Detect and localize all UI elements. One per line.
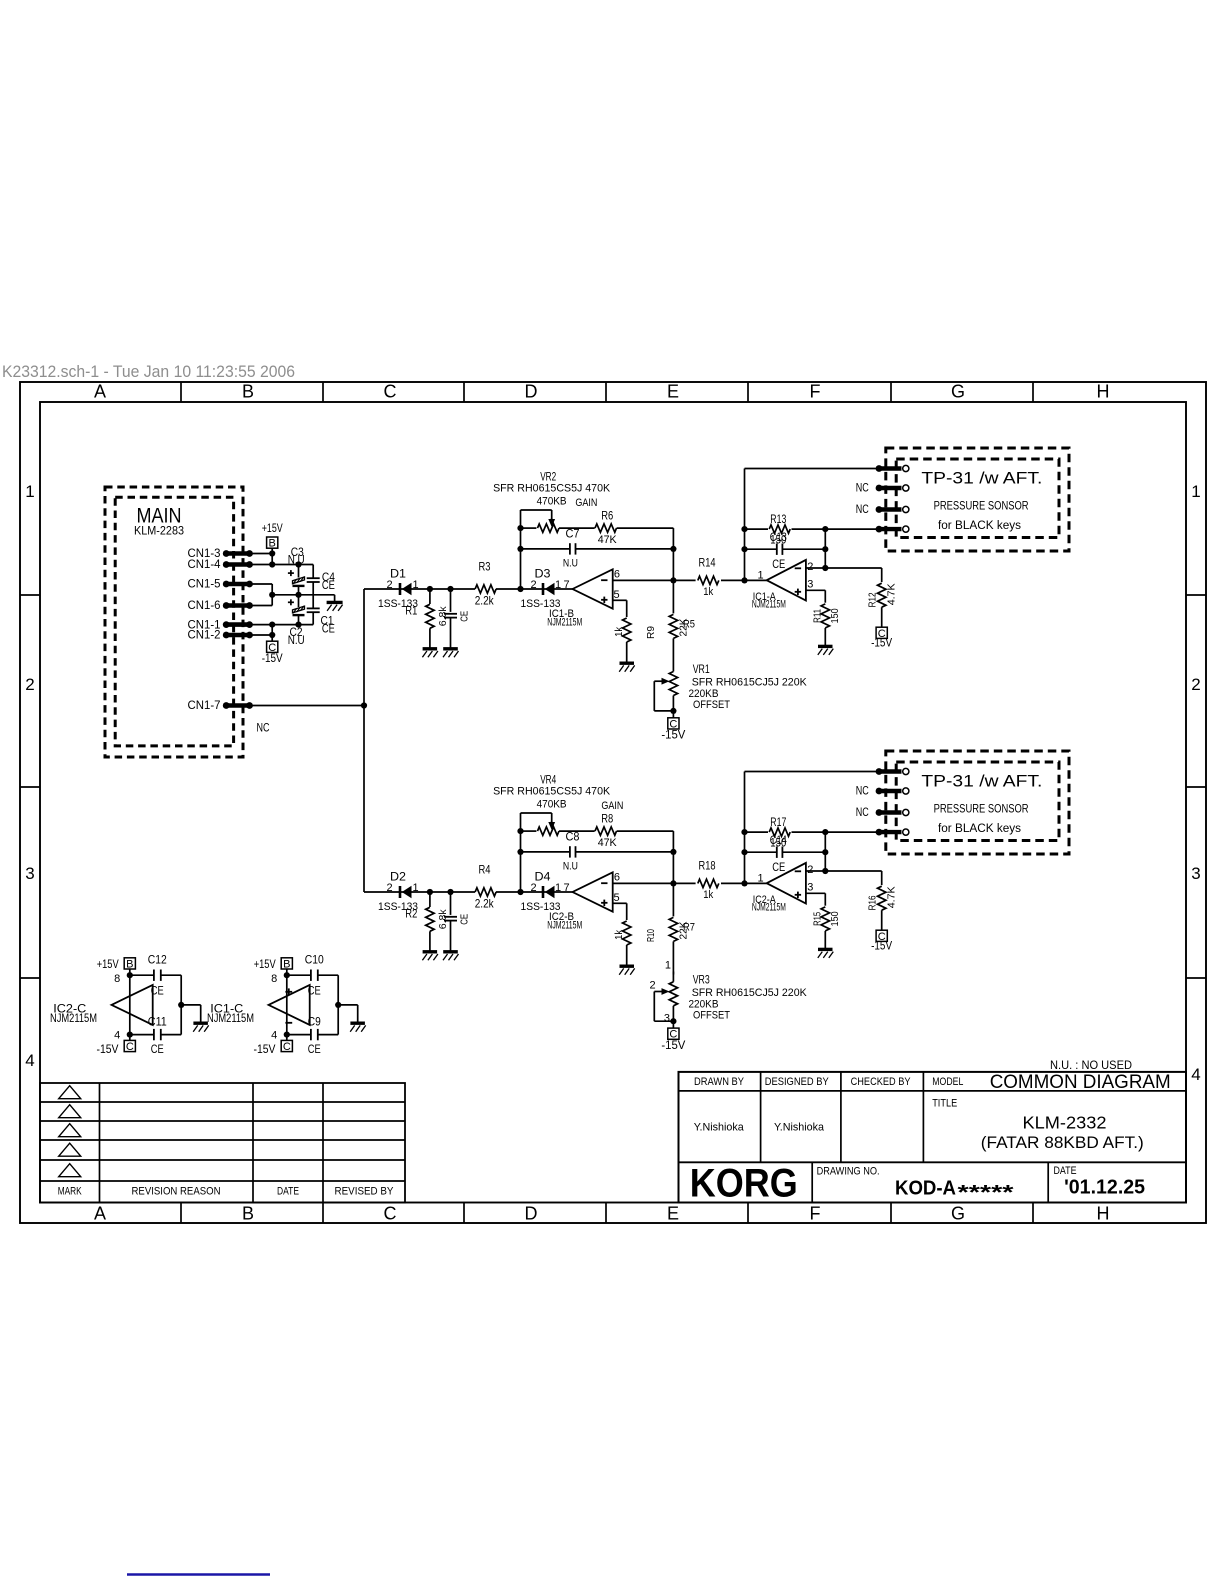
svg-text:F: F: [810, 1204, 821, 1224]
svg-text:CN1-5: CN1-5: [188, 577, 221, 591]
svg-text:CE: CE: [308, 1042, 321, 1056]
svg-text:47K: 47K: [598, 837, 618, 849]
svg-text:2: 2: [386, 579, 392, 591]
svg-text:KLM-2332: KLM-2332: [1023, 1112, 1107, 1132]
svg-text:1k: 1k: [703, 586, 713, 598]
svg-text:D: D: [525, 1204, 538, 1224]
svg-text:N.U: N.U: [563, 861, 578, 873]
svg-text:1: 1: [412, 882, 418, 894]
svg-text:NJM2115M: NJM2115M: [752, 902, 786, 914]
svg-text:6.8k: 6.8k: [437, 909, 449, 930]
svg-text:C7: C7: [566, 527, 580, 541]
svg-text:F: F: [810, 382, 821, 402]
svg-text:3: 3: [807, 579, 813, 591]
svg-text:47K: 47K: [598, 534, 618, 546]
svg-text:3: 3: [25, 864, 34, 883]
svg-text:Y.Nishioka: Y.Nishioka: [774, 1122, 825, 1134]
svg-text:REVISED BY: REVISED BY: [335, 1186, 395, 1198]
svg-text:CHECKED BY: CHECKED BY: [851, 1076, 912, 1088]
svg-text:CE: CE: [308, 984, 321, 998]
svg-text:COMMON DIAGRAM: COMMON DIAGRAM: [990, 1072, 1171, 1093]
svg-text:R12: R12: [867, 592, 879, 607]
svg-text:4: 4: [114, 1030, 120, 1042]
svg-text:C10: C10: [305, 953, 324, 967]
svg-text:CE: CE: [458, 611, 470, 622]
svg-text:6: 6: [614, 872, 620, 884]
svg-text:-15V: -15V: [871, 636, 892, 650]
svg-text:OFFSET: OFFSET: [693, 699, 730, 711]
svg-text:4.7K: 4.7K: [885, 583, 897, 605]
svg-text:2: 2: [530, 882, 536, 894]
svg-text:A: A: [94, 1204, 106, 1224]
svg-text:PRESSURE SONSOR: PRESSURE SONSOR: [934, 804, 1029, 816]
svg-text:1k: 1k: [613, 626, 625, 637]
svg-text:SFR RH0615CJ5J 220K: SFR RH0615CJ5J 220K: [692, 677, 808, 689]
svg-text:C: C: [126, 1041, 134, 1053]
svg-text:CE: CE: [151, 984, 164, 998]
svg-text:B: B: [242, 382, 254, 402]
svg-text:5: 5: [613, 589, 619, 601]
svg-text:B: B: [283, 958, 290, 970]
svg-text:3: 3: [807, 882, 813, 894]
svg-text:VR4: VR4: [540, 773, 556, 787]
svg-text:4: 4: [271, 1030, 277, 1042]
svg-text:R14: R14: [699, 555, 716, 569]
svg-text:1: 1: [555, 882, 561, 894]
svg-text:2: 2: [1191, 675, 1200, 694]
svg-text:R13: R13: [770, 512, 786, 526]
svg-text:4: 4: [1191, 1065, 1200, 1084]
svg-text:C: C: [384, 382, 397, 402]
svg-text:2.2k: 2.2k: [475, 897, 495, 911]
svg-text:470KB: 470KB: [537, 799, 567, 811]
svg-text:1: 1: [25, 482, 34, 501]
svg-text:1: 1: [757, 873, 763, 885]
svg-text:for BLACK keys: for BLACK keys: [938, 520, 1021, 532]
svg-text:150: 150: [770, 533, 786, 547]
svg-text:E: E: [667, 382, 679, 402]
svg-text:-15V: -15V: [661, 728, 685, 742]
svg-text:DRAWN BY: DRAWN BY: [694, 1076, 745, 1088]
svg-text:2: 2: [649, 980, 655, 992]
svg-text:R17: R17: [770, 815, 786, 829]
svg-text:8: 8: [114, 973, 120, 985]
svg-text:TP-31 /w AFT.: TP-31 /w AFT.: [921, 772, 1042, 791]
svg-text:CN1-7: CN1-7: [188, 698, 221, 712]
svg-text:A: A: [94, 382, 106, 402]
svg-text:NJM2115M: NJM2115M: [752, 599, 786, 611]
svg-text:150: 150: [829, 608, 841, 623]
svg-text:2: 2: [807, 864, 813, 876]
svg-text:2: 2: [807, 561, 813, 573]
svg-text:1: 1: [412, 579, 418, 591]
svg-text:150: 150: [770, 836, 786, 850]
svg-text:R8: R8: [601, 812, 613, 826]
svg-text:4.7K: 4.7K: [885, 886, 897, 908]
svg-text:R18: R18: [699, 858, 716, 872]
svg-text:6.8k: 6.8k: [437, 606, 449, 627]
svg-text:GAIN: GAIN: [575, 497, 597, 509]
svg-text:3: 3: [1191, 864, 1200, 883]
svg-text:B: B: [242, 1204, 254, 1224]
svg-text:NJM2115M: NJM2115M: [207, 1011, 254, 1025]
svg-text:TP-31 /w AFT.: TP-31 /w AFT.: [921, 469, 1042, 488]
svg-text:SFR RH0615CJ5J 220K: SFR RH0615CJ5J 220K: [692, 987, 808, 999]
svg-text:OFFSET: OFFSET: [693, 1009, 730, 1021]
svg-text:KORG: KORG: [690, 1162, 798, 1206]
svg-text:D3: D3: [535, 567, 551, 581]
svg-text:CE: CE: [151, 1042, 164, 1056]
svg-text:R4: R4: [479, 863, 491, 877]
svg-text:R2: R2: [405, 907, 417, 921]
svg-text:6: 6: [614, 569, 620, 581]
svg-text:*****: *****: [958, 1182, 1014, 1204]
svg-text:H: H: [1097, 382, 1110, 402]
svg-text:DESIGNED BY: DESIGNED BY: [765, 1076, 830, 1088]
svg-text:R9: R9: [645, 626, 657, 639]
svg-text:R3: R3: [479, 560, 491, 574]
svg-text:R6: R6: [601, 509, 613, 523]
svg-text:MARK: MARK: [58, 1186, 83, 1198]
svg-text:C11: C11: [148, 1015, 167, 1029]
svg-text:-15V: -15V: [254, 1042, 276, 1056]
svg-text:+15V: +15V: [254, 957, 276, 971]
svg-text:CN1-2: CN1-2: [188, 628, 221, 642]
svg-text:N.U: N.U: [288, 555, 305, 567]
svg-text:H: H: [1097, 1204, 1110, 1224]
svg-text:-15V: -15V: [871, 939, 892, 953]
svg-text:2: 2: [25, 675, 34, 694]
svg-text:3: 3: [664, 1013, 670, 1025]
svg-text:MODEL: MODEL: [932, 1076, 963, 1088]
svg-text:D4: D4: [535, 870, 551, 884]
svg-text:N.U: N.U: [288, 635, 305, 647]
svg-text:'01.12.25: '01.12.25: [1064, 1177, 1145, 1199]
svg-text:GAIN: GAIN: [601, 800, 623, 812]
svg-text:1k: 1k: [703, 889, 713, 901]
svg-text:CE: CE: [322, 622, 335, 636]
svg-text:4: 4: [25, 1051, 34, 1070]
svg-text:R1: R1: [405, 604, 417, 618]
svg-text:R7: R7: [683, 922, 695, 934]
svg-text:D: D: [525, 382, 538, 402]
svg-text:1: 1: [757, 570, 763, 582]
svg-text:C: C: [384, 1204, 397, 1224]
svg-text:-15V: -15V: [262, 651, 283, 665]
svg-text:NC: NC: [856, 805, 869, 819]
svg-text:8: 8: [271, 973, 277, 985]
svg-text:470KB: 470KB: [537, 496, 567, 508]
svg-text:VR3: VR3: [693, 972, 710, 986]
svg-text:2: 2: [530, 579, 536, 591]
svg-text:(FATAR 88KBD AFT.): (FATAR 88KBD AFT.): [981, 1133, 1144, 1152]
svg-text:C: C: [283, 1041, 291, 1053]
svg-text:PRESSURE SONSOR: PRESSURE SONSOR: [934, 501, 1029, 513]
svg-text:5: 5: [613, 892, 619, 904]
svg-text:R15: R15: [811, 912, 823, 926]
svg-text:G: G: [951, 382, 965, 402]
svg-text:CE: CE: [458, 914, 470, 925]
svg-text:C8: C8: [566, 830, 580, 844]
svg-text:SFR RH0615CS5J 470K: SFR RH0615CS5J 470K: [493, 786, 611, 798]
svg-text:7: 7: [563, 882, 569, 894]
svg-text:CE: CE: [772, 557, 785, 571]
svg-text:N.U: N.U: [563, 558, 578, 570]
svg-text:CN1-6: CN1-6: [188, 598, 221, 612]
svg-text:TITLE: TITLE: [932, 1097, 957, 1109]
svg-text:2.2k: 2.2k: [475, 594, 495, 608]
svg-text:NJM2115M: NJM2115M: [547, 920, 582, 932]
svg-text:R5: R5: [683, 619, 695, 631]
svg-text:DATE: DATE: [1054, 1165, 1077, 1177]
svg-text:G: G: [951, 1204, 965, 1224]
svg-text:N.U. : NO USED: N.U. : NO USED: [1050, 1060, 1132, 1072]
svg-text:NC: NC: [257, 721, 270, 735]
svg-text:1k: 1k: [613, 929, 625, 940]
svg-text:E: E: [667, 1204, 679, 1224]
svg-text:KLM-2283: KLM-2283: [134, 524, 184, 538]
svg-text:for BLACK keys: for BLACK keys: [938, 823, 1021, 835]
svg-text:-15V: -15V: [97, 1042, 119, 1056]
svg-text:B: B: [269, 538, 276, 550]
svg-text:7: 7: [563, 579, 569, 591]
svg-text:C9: C9: [308, 1015, 321, 1029]
svg-text:NC: NC: [856, 502, 869, 516]
svg-text:NC: NC: [856, 784, 869, 798]
svg-text:SFR RH0615CS5J 470K: SFR RH0615CS5J 470K: [493, 483, 611, 495]
svg-text:1: 1: [665, 960, 671, 972]
svg-text:CE: CE: [772, 860, 785, 874]
svg-text:Y.Nishioka: Y.Nishioka: [694, 1122, 745, 1134]
svg-text:1: 1: [1191, 482, 1200, 501]
svg-text:VR2: VR2: [540, 470, 556, 484]
svg-text:NC: NC: [856, 481, 869, 495]
svg-text:NJM2115M: NJM2115M: [50, 1011, 97, 1025]
svg-text:VR1: VR1: [693, 662, 710, 676]
svg-text:CN1-4: CN1-4: [188, 557, 221, 571]
svg-text:K23312.sch-1 - Tue Jan 10 11:2: K23312.sch-1 - Tue Jan 10 11:23:55 2006: [2, 363, 295, 381]
svg-text:1: 1: [555, 579, 561, 591]
svg-text:R11: R11: [811, 609, 823, 623]
svg-text:NJM2115M: NJM2115M: [547, 617, 582, 629]
svg-text:C12: C12: [148, 953, 167, 967]
svg-text:B: B: [126, 958, 133, 970]
svg-text:R10: R10: [645, 929, 657, 942]
svg-text:CE: CE: [322, 578, 335, 592]
svg-text:+15V: +15V: [262, 521, 283, 535]
svg-text:KOD-A: KOD-A: [895, 1178, 956, 1200]
svg-text:2: 2: [386, 882, 392, 894]
svg-text:150: 150: [829, 911, 841, 926]
svg-text:DRAWING NO.: DRAWING NO.: [817, 1166, 880, 1178]
svg-text:R16: R16: [867, 895, 879, 910]
svg-text:-15V: -15V: [661, 1038, 685, 1052]
svg-text:DATE: DATE: [277, 1186, 299, 1198]
svg-text:+15V: +15V: [97, 957, 119, 971]
svg-text:REVISION REASON: REVISION REASON: [132, 1186, 221, 1198]
